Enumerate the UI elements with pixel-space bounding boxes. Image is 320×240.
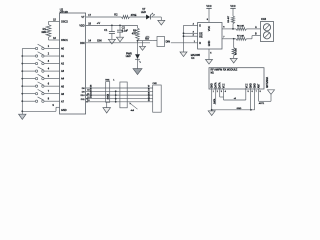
- svg-text:+V: +V: [97, 21, 101, 25]
- svg-text:VCC: VCC: [206, 5, 211, 8]
- svg-text:R9 10K: R9 10K: [236, 48, 238, 55]
- svg-text:VCC: VCC: [224, 83, 226, 88]
- svg-text:DIN: DIN: [80, 42, 85, 45]
- svg-text:LED: LED: [126, 55, 131, 58]
- svg-text:R: R: [199, 42, 201, 45]
- svg-text:3: 3: [221, 91, 222, 93]
- svg-text:470E: 470E: [131, 14, 137, 17]
- svg-text:GND: GND: [212, 83, 214, 88]
- svg-text:6: 6: [252, 91, 253, 93]
- svg-text:ANT1: ANT1: [259, 102, 265, 105]
- svg-text:LED: LED: [141, 11, 146, 14]
- svg-text:7: 7: [256, 91, 257, 93]
- svg-text:RE: RE: [199, 35, 203, 38]
- svg-text:0.1uF: 0.1uF: [122, 29, 129, 32]
- svg-text:DIN: DIN: [166, 40, 171, 43]
- svg-text:R6 10E: R6 10E: [237, 25, 245, 27]
- svg-text:RF AM/FM RX MODULE: RF AM/FM RX MODULE: [211, 69, 238, 72]
- svg-text:47K: 47K: [132, 33, 137, 36]
- svg-text:CN4: CN4: [261, 18, 267, 21]
- svg-text:VCC: VCC: [247, 83, 249, 88]
- svg-text:R5 4K7: R5 4K7: [228, 15, 230, 23]
- svg-text:DATA: DATA: [219, 82, 222, 88]
- svg-text:10Kx4: 10Kx4: [107, 93, 109, 100]
- svg-text:5: 5: [248, 91, 249, 93]
- svg-text:VT: VT: [81, 16, 85, 19]
- svg-text:1: 1: [213, 91, 214, 93]
- svg-text:HT12D: HT12D: [60, 10, 68, 14]
- svg-text:GND: GND: [251, 83, 253, 88]
- svg-text:4: 4: [225, 91, 226, 93]
- svg-text:ANT: ANT: [258, 83, 261, 88]
- svg-text:OSC2: OSC2: [61, 21, 68, 24]
- svg-text:GND: GND: [208, 41, 211, 47]
- svg-text:D: D: [199, 24, 201, 27]
- svg-text:ANTENNA: ANTENNA: [266, 77, 269, 88]
- svg-text:DIN: DIN: [97, 40, 102, 43]
- svg-text:OSC1: OSC1: [61, 39, 68, 42]
- svg-text:GND: GND: [255, 83, 257, 88]
- svg-text:R7 10E: R7 10E: [237, 35, 245, 37]
- svg-text:VCC: VCC: [230, 5, 235, 8]
- svg-text:GND: GND: [61, 109, 67, 112]
- svg-text:2: 2: [217, 91, 218, 93]
- svg-text:DATA: DATA: [215, 82, 218, 88]
- svg-text:VCC: VCC: [208, 26, 211, 31]
- svg-text:GND: GND: [237, 108, 242, 110]
- svg-text:33K: 33K: [41, 30, 46, 34]
- svg-text:DATA: DATA: [213, 98, 216, 104]
- svg-text:8: 8: [260, 91, 261, 93]
- svg-text:VDD: VDD: [79, 25, 84, 28]
